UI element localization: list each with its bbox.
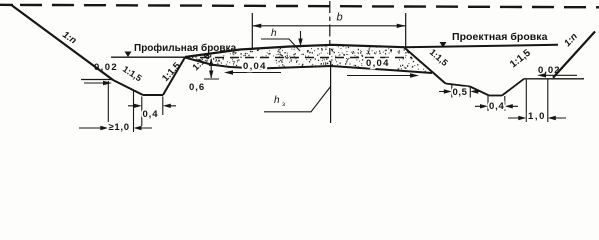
right 0,02 arrowhead <box>537 73 546 77</box>
left berm line 0,02 <box>81 79 113 81</box>
slope 1:n right <box>553 32 595 78</box>
0,4 right arrowheads <box>480 104 513 108</box>
arrow line 0,04 right <box>347 75 416 77</box>
svg-text:0,04: 0,04 <box>243 61 267 72</box>
0,5 arrowheads <box>444 89 479 93</box>
svg-text:0,4: 0,4 <box>143 109 159 120</box>
h down arrowhead <box>298 39 302 47</box>
right ditch bottom <box>489 95 502 97</box>
0,4 left arrowheads <box>134 104 171 108</box>
dimension 0,6 <box>204 59 219 79</box>
right berm line 0,02 <box>524 78 584 80</box>
svg-text:1:1,5: 1:1,5 <box>508 47 533 70</box>
dimension >=1,0 left <box>79 81 152 132</box>
dimension h underline and leader <box>261 31 301 51</box>
right ditch outer slope <box>470 87 489 96</box>
arrowheads <box>100 24 556 131</box>
svg-text:0,6: 0,6 <box>189 82 205 93</box>
dimension 1,0 right <box>508 79 566 122</box>
svg-text:0,5: 0,5 <box>453 87 468 98</box>
svg-text:h: h <box>274 95 280 106</box>
left 0,02 arrowhead <box>103 81 112 85</box>
slope 1:n left <box>12 6 113 81</box>
right ditch inner slope 1:1,5 <box>502 79 524 96</box>
1,0 arrowheads <box>518 116 556 120</box>
>=1,0 arrowheads <box>100 126 141 130</box>
design top surface <box>185 45 404 57</box>
svg-text:Профильная бровка: Профильная бровка <box>134 42 237 54</box>
h3 underline and leader <box>264 86 331 112</box>
svg-text:b: b <box>337 12 343 24</box>
0,04 right arrowhead <box>410 73 419 77</box>
svg-text:1,0: 1,0 <box>528 111 546 122</box>
svg-text:1:1,5: 1:1,5 <box>121 64 144 84</box>
band bottom old base line <box>185 58 432 74</box>
svg-text:з: з <box>282 101 285 108</box>
stipple fill dots <box>189 46 424 71</box>
left ditch outer slope 1:1,5 <box>113 80 143 95</box>
left ditch bottom <box>143 94 163 96</box>
right berm slope arrow line <box>540 74 577 76</box>
centerline axis <box>329 1 331 55</box>
0,6 arrowheads <box>209 58 213 79</box>
svg-text:1:n: 1:n <box>562 31 580 49</box>
b dimension arrowheads <box>252 24 405 28</box>
dimension 0,4 left <box>128 97 176 127</box>
svg-text:0,02: 0,02 <box>538 65 561 76</box>
design berm line right <box>404 45 558 47</box>
svg-text:0,4: 0,4 <box>489 101 505 112</box>
right fill slope 1:1,5 <box>404 47 446 83</box>
svg-text:≥1,0: ≥1,0 <box>109 122 130 133</box>
right ground berm segment <box>446 84 471 87</box>
svg-text:Проектная бровка: Проектная бровка <box>452 31 548 43</box>
design edge marker <box>440 42 447 48</box>
left ditch inner slope 1:1,5 <box>163 57 185 95</box>
old surface dashed line <box>200 57 412 59</box>
dimension b extension and line <box>252 13 405 50</box>
left berm slope arrow <box>84 82 109 84</box>
dimension 0,5 right <box>439 85 482 98</box>
datum dashed line <box>0 5 599 8</box>
profile edge level line <box>111 56 185 58</box>
svg-text:1:1,5: 1:1,5 <box>428 47 450 68</box>
dimension 0,4 right <box>475 96 518 111</box>
svg-text:h: h <box>271 28 277 39</box>
svg-text:0,04: 0,04 <box>366 58 390 69</box>
arrow line 0,04 left <box>227 72 281 74</box>
profile edge marker <box>125 52 132 58</box>
0,04 left arrowhead <box>224 70 233 74</box>
svg-text:0,02: 0,02 <box>94 62 118 73</box>
